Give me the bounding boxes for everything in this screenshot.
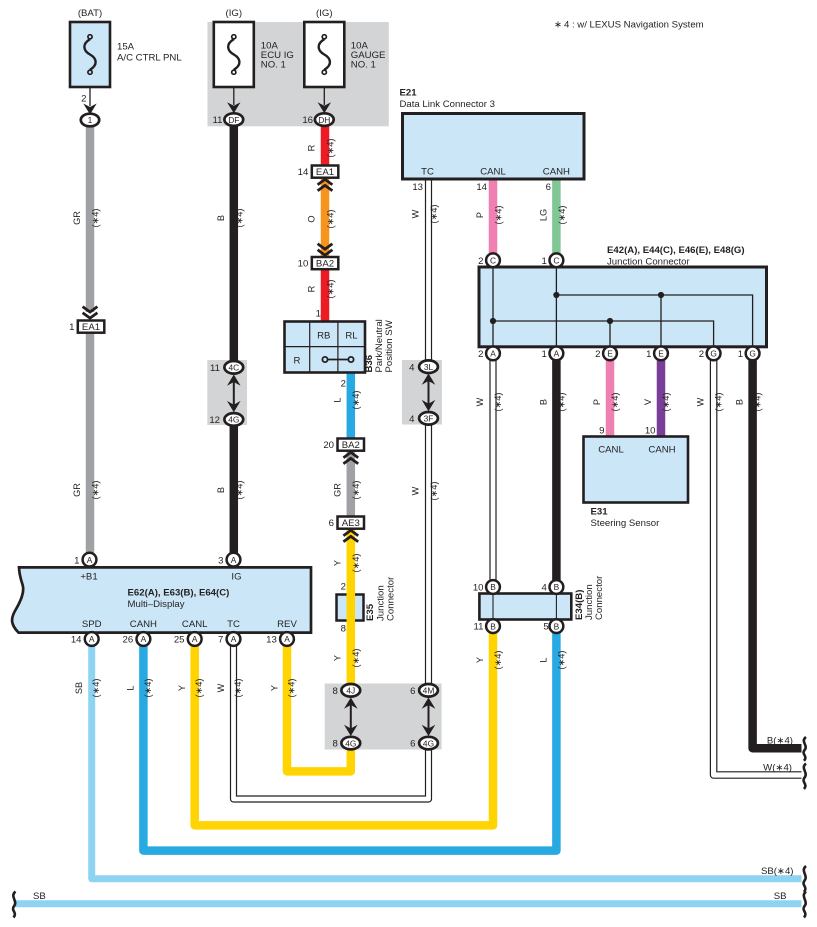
- connector oval 8 4J: [341, 684, 360, 697]
- svg-text:W: W: [216, 683, 226, 692]
- svg-text:G: G: [710, 349, 717, 359]
- wire L blue from B36 pin 2 to BA2: [347, 373, 356, 439]
- pin circle 3A IG: [227, 553, 241, 567]
- svg-text:14: 14: [298, 167, 309, 178]
- wire label O *4: [307, 210, 336, 229]
- B36 cell label RB: [317, 331, 330, 342]
- svg-text:4G: 4G: [228, 415, 239, 425]
- svg-text:B: B: [554, 582, 560, 592]
- svg-text:2: 2: [595, 349, 600, 360]
- wire label GR *4 lower: [72, 481, 101, 500]
- svg-text:Y: Y: [332, 560, 342, 566]
- connector oval 11 4C: [224, 361, 243, 374]
- pin circle 1A junction: [550, 347, 564, 361]
- wire W white from E21 TC pin 13 to 3L/4M: [425, 179, 432, 685]
- wire label W *4 E21 TC lower: [411, 482, 440, 501]
- gray background IG fuse block: [208, 22, 389, 126]
- svg-text:(∗4): (∗4): [429, 205, 439, 224]
- svg-text:1: 1: [74, 555, 79, 566]
- pin number 26 CANH: [123, 635, 134, 646]
- wire label W *4 2A: [475, 393, 503, 412]
- svg-text:2: 2: [81, 94, 86, 105]
- connector oval 6 4G lower-right: [419, 737, 438, 750]
- pin number 4 3L: [409, 362, 415, 373]
- wire SB light-blue SPD from pin 14A to right edge: [92, 645, 802, 879]
- pin number 10 B: [473, 583, 484, 594]
- connector oval 1 below BAT fuse: [81, 114, 99, 127]
- connector oval 12 4G: [224, 413, 243, 426]
- svg-text:A: A: [231, 555, 237, 565]
- svg-text:∗ 4 : w/ LEXUS Navigation Syst: ∗ 4 : w/ LEXUS Navigation System: [554, 20, 704, 31]
- svg-text:(IG): (IG): [316, 8, 333, 19]
- svg-text:(IG): (IG): [226, 8, 243, 19]
- exit label SB(*4): [761, 866, 794, 877]
- svg-text:4: 4: [409, 414, 415, 425]
- svg-text:P: P: [592, 399, 602, 405]
- wire label Y *4 below E35: [332, 649, 361, 668]
- svg-text:(∗4): (∗4): [351, 649, 361, 668]
- svg-text:15A: 15A: [117, 42, 135, 53]
- svg-text:Position SW: Position SW: [384, 319, 395, 372]
- label E21 title: [400, 88, 495, 111]
- svg-text:Y: Y: [269, 685, 279, 691]
- double arrow between 4M and 4G: [422, 698, 436, 737]
- pin circle 7A TC: [227, 632, 241, 646]
- svg-text:Y: Y: [475, 657, 485, 663]
- svg-text:REV: REV: [277, 619, 297, 630]
- wire label Y *4 CANL: [177, 679, 204, 698]
- svg-text:LG: LG: [538, 209, 548, 221]
- svg-text:4: 4: [542, 583, 548, 594]
- pin number 25 CANL: [174, 635, 185, 646]
- pin circle 25A CANL: [188, 632, 202, 646]
- svg-text:(∗4): (∗4): [234, 209, 244, 228]
- pin circle 5B: [550, 619, 564, 633]
- svg-text:(∗4): (∗4): [326, 139, 336, 158]
- svg-text:GR: GR: [332, 483, 342, 497]
- svg-text:1: 1: [738, 349, 743, 360]
- svg-text:E42(A), E44(C), E46(E), E48(G): E42(A), E44(C), E46(E), E48(G): [607, 245, 745, 256]
- wire label B *4 lower: [216, 481, 245, 500]
- wire label B *4 1G: [735, 393, 763, 412]
- svg-text:RL: RL: [345, 331, 358, 342]
- exit label SB left: [33, 891, 46, 902]
- pin number 2 C: [478, 256, 483, 267]
- svg-text:A: A: [192, 634, 198, 644]
- chevron mark on GR wire above EA1: [83, 307, 98, 319]
- wire label B *4 upper: [216, 209, 245, 228]
- wire P pink from 2E to E31 CANL: [606, 360, 615, 437]
- pin circle 2A: [486, 347, 500, 361]
- connector oval 6 4M: [419, 684, 438, 697]
- wire label R *4 lower: [307, 280, 336, 299]
- svg-text:10: 10: [298, 259, 309, 270]
- fuse 10A ECU IG NO.1: [214, 22, 254, 113]
- svg-text:E: E: [607, 349, 613, 359]
- pin number 1 EA1: [69, 322, 74, 333]
- svg-text:1: 1: [542, 349, 547, 360]
- svg-text:A: A: [490, 349, 496, 359]
- break squiggle B wire right: [804, 737, 806, 761]
- pin number 1 A: [542, 349, 547, 360]
- pin number 2 A: [478, 349, 483, 360]
- wire label V *4 1E: [643, 393, 671, 412]
- B36 Park/Neutral Position SW box: [285, 322, 366, 373]
- svg-text:A/C CTRL PNL: A/C CTRL PNL: [117, 53, 182, 64]
- svg-text:TC: TC: [421, 167, 434, 178]
- double arrow between 4J and 4G: [344, 698, 358, 737]
- wire label Y *4 REV: [269, 679, 296, 698]
- svg-text:A: A: [89, 634, 95, 644]
- svg-text:B(∗4): B(∗4): [767, 736, 793, 747]
- svg-text:Connector: Connector: [386, 576, 397, 621]
- svg-text:R: R: [307, 144, 317, 151]
- svg-text:(∗4): (∗4): [429, 482, 439, 501]
- svg-text:CANL: CANL: [480, 167, 506, 178]
- svg-text:1: 1: [69, 322, 74, 333]
- svg-text:14: 14: [476, 182, 487, 193]
- svg-text:+B1: +B1: [80, 572, 97, 583]
- svg-text:CANL: CANL: [598, 445, 624, 456]
- E34(B) junction connector box: [479, 594, 571, 620]
- svg-text:11: 11: [210, 363, 220, 374]
- svg-text:8: 8: [332, 686, 337, 697]
- svg-text:B: B: [216, 215, 226, 221]
- svg-text:Steering Sensor: Steering Sensor: [591, 518, 661, 529]
- svg-text:Junction Connector: Junction Connector: [607, 257, 690, 268]
- connector oval 4 3L: [419, 360, 438, 373]
- pin circle 4B: [550, 580, 564, 594]
- pin number 10 BA2: [298, 259, 309, 270]
- svg-text:IG: IG: [231, 572, 241, 583]
- pin circle 13A REV: [280, 632, 294, 646]
- svg-text:(∗4): (∗4): [556, 651, 566, 670]
- svg-text:NO. 1: NO. 1: [351, 60, 376, 71]
- E31 Steering Sensor box: [584, 437, 689, 503]
- label (BAT): [78, 8, 102, 19]
- svg-text:(∗4): (∗4): [753, 393, 763, 412]
- pin circle 1E: [654, 347, 668, 361]
- pin number 11 4C: [210, 363, 220, 374]
- E21 Data Link Connector 3 box: [403, 114, 585, 180]
- connector box 20 BA2 on L wire: [338, 439, 365, 452]
- svg-text:(∗4): (∗4): [493, 651, 503, 670]
- wire label GR *4 upper: [72, 209, 101, 228]
- E42/E44/E46/E48 junction connector box: [479, 267, 767, 347]
- pin circle 1G: [746, 347, 760, 361]
- pin number 12 4G: [209, 415, 220, 426]
- svg-text:EA1: EA1: [316, 167, 334, 178]
- svg-text:(BAT): (BAT): [78, 8, 102, 19]
- wire B black from 1A to E34 4B: [552, 360, 561, 581]
- wire label L *4 5B: [538, 651, 566, 670]
- wire label Y *4 11B: [475, 651, 503, 670]
- svg-text:SB(∗4): SB(∗4): [761, 866, 794, 877]
- pin number 8 E35: [341, 624, 346, 635]
- svg-text:12: 12: [209, 415, 220, 426]
- wire W white from 2G to right edge: [714, 360, 802, 775]
- exit label SB right: [774, 891, 787, 902]
- svg-text:(∗4): (∗4): [351, 554, 361, 573]
- wire label W *4 TC: [216, 679, 243, 698]
- svg-text:3: 3: [218, 555, 223, 566]
- svg-text:26: 26: [123, 635, 134, 646]
- svg-text:Connector: Connector: [594, 575, 605, 620]
- connector box 6 AE3 on GR wire: [338, 517, 365, 530]
- wire label B *4 1A: [538, 393, 566, 412]
- pin number 2 E: [595, 349, 600, 360]
- svg-text:CANH: CANH: [543, 167, 570, 178]
- wire R red from BA2 to B36 pin 1: [321, 268, 330, 322]
- svg-text:A: A: [284, 634, 290, 644]
- svg-text:1: 1: [646, 349, 651, 360]
- svg-text:(∗4): (∗4): [351, 481, 361, 500]
- svg-text:(∗4): (∗4): [714, 393, 724, 412]
- wire label W *4 E21 TC upper: [411, 205, 440, 224]
- svg-text:(∗4): (∗4): [143, 679, 153, 698]
- wire GR gray from BA2 to AE3: [347, 451, 356, 517]
- svg-text:14: 14: [71, 635, 82, 646]
- B36 switch symbol: [322, 357, 353, 362]
- pin number 1 C: [542, 256, 547, 267]
- pin number 4 3F: [409, 414, 415, 425]
- wire label L *4: [332, 391, 361, 410]
- svg-text:(∗4): (∗4): [494, 206, 504, 225]
- svg-text:11: 11: [213, 115, 223, 126]
- svg-text:R: R: [307, 285, 317, 292]
- B36 cell label R: [294, 356, 301, 367]
- connector oval 4 3F: [419, 412, 438, 425]
- svg-text:6: 6: [410, 739, 415, 750]
- svg-text:9: 9: [599, 426, 604, 437]
- svg-text:4J: 4J: [346, 686, 355, 696]
- chevron mark below 14 EA1 pointing up: [318, 179, 333, 191]
- svg-text:2: 2: [478, 256, 483, 267]
- svg-text:DH: DH: [318, 115, 330, 125]
- pin number 1 +B1: [74, 555, 79, 566]
- svg-text:(∗4): (∗4): [326, 280, 336, 299]
- svg-text:B: B: [538, 399, 548, 405]
- svg-text:B: B: [216, 487, 226, 493]
- svg-text:W(∗4): W(∗4): [763, 763, 792, 774]
- break squiggle W wire right: [804, 764, 806, 790]
- pin number 1 B36: [316, 309, 321, 320]
- pin circle 2G: [707, 347, 721, 361]
- svg-text:20: 20: [323, 440, 334, 451]
- svg-text:4G: 4G: [423, 738, 434, 748]
- svg-text:4C: 4C: [228, 363, 239, 373]
- pin number 8 4G: [332, 739, 337, 750]
- pin number 14 EA1: [298, 167, 309, 178]
- svg-text:W: W: [411, 209, 421, 218]
- svg-text:4G: 4G: [345, 738, 356, 748]
- exit label W(*4): [763, 763, 792, 774]
- pin number 9 E31: [599, 426, 604, 437]
- svg-text:A: A: [554, 349, 560, 359]
- wire L blue CANH from pin 26A to E34 5B: [143, 633, 556, 851]
- svg-text:5: 5: [543, 622, 548, 633]
- label (IG) right: [316, 8, 333, 19]
- pin number 16 DH: [302, 115, 313, 126]
- label (IG) left: [226, 8, 243, 19]
- svg-text:1: 1: [542, 256, 547, 267]
- svg-text:AE3: AE3: [342, 518, 360, 529]
- svg-text:(∗4): (∗4): [661, 393, 671, 412]
- svg-text:A: A: [141, 634, 147, 644]
- pin circle 1C: [550, 253, 564, 267]
- E42 junction connector title: [607, 245, 745, 268]
- svg-text:11: 11: [474, 622, 484, 633]
- svg-text:TC: TC: [227, 619, 240, 630]
- wire W white TC from pin 7A to 4G: [234, 645, 429, 799]
- wire label SB *4 SPD: [74, 679, 101, 698]
- svg-text:R: R: [294, 356, 301, 367]
- wire LG green from E21 CANH to 1C: [552, 179, 561, 254]
- svg-text:L: L: [332, 397, 342, 402]
- svg-text:13: 13: [412, 182, 423, 193]
- svg-text:B: B: [735, 399, 745, 405]
- chevron mark above 10 BA2 pointing down: [318, 244, 333, 256]
- svg-text:(∗4): (∗4): [557, 206, 567, 225]
- pin number 6 4M: [410, 686, 415, 697]
- pin number 4 B: [542, 583, 548, 594]
- Multi-Display box E62/E63/E64: [12, 567, 311, 632]
- svg-text:SB: SB: [774, 891, 787, 902]
- pin circle 10B: [486, 580, 500, 594]
- wire GR gray from fuse 1 to +B1: [86, 126, 95, 553]
- label 15A A/C CTRL PNL: [117, 42, 182, 64]
- pin number 11 DF: [213, 115, 223, 126]
- wire Y yellow CANL from pin 25A to E34 11B: [195, 633, 493, 826]
- svg-text:2: 2: [478, 349, 483, 360]
- svg-text:EA1: EA1: [82, 322, 100, 333]
- pin number 8 4J: [332, 686, 337, 697]
- svg-text:2: 2: [341, 379, 346, 390]
- svg-text:BA2: BA2: [342, 440, 360, 451]
- svg-text:W: W: [475, 397, 485, 406]
- E35 rotated name: [365, 576, 397, 621]
- E34 rotated name: [574, 575, 605, 620]
- pin circle 26A CANH: [137, 632, 151, 646]
- fuse 10A GAUGE NO.1: [304, 22, 344, 113]
- svg-text:16: 16: [302, 115, 313, 126]
- junction dot 2E net: [607, 318, 613, 324]
- pin number 20 BA2: [323, 440, 334, 451]
- connector oval 8 4G lower-left: [341, 737, 360, 750]
- svg-text:(∗4): (∗4): [194, 679, 204, 698]
- exit label B(*4): [767, 736, 793, 747]
- break squiggle SB4 wire right: [804, 866, 806, 892]
- svg-text:(∗4): (∗4): [91, 481, 101, 500]
- wire label Y *4 above E35: [332, 554, 361, 573]
- svg-text:O: O: [307, 215, 317, 222]
- break squiggle SB wire right: [804, 892, 806, 918]
- svg-text:Multi–Display: Multi–Display: [128, 599, 185, 610]
- svg-text:A: A: [231, 634, 237, 644]
- pin number 6 4G: [410, 739, 415, 750]
- pin circle 2E: [603, 347, 617, 361]
- svg-text:4: 4: [409, 362, 415, 373]
- svg-text:E35: E35: [365, 603, 376, 621]
- wire R red from DH to EA1: [321, 126, 330, 166]
- wire P pink from E21 CANL to 2C: [489, 179, 498, 254]
- svg-text:8: 8: [341, 624, 346, 635]
- svg-text:CANH: CANH: [648, 445, 675, 456]
- pin circle 2C: [486, 253, 500, 267]
- svg-text:GR: GR: [72, 211, 82, 225]
- svg-text:V: V: [643, 398, 653, 405]
- pin number 14 SPD: [71, 635, 82, 646]
- svg-text:1: 1: [88, 115, 93, 125]
- junction dot 2C-2A net: [490, 318, 496, 324]
- pin number 13 TC: [412, 182, 423, 193]
- pin number 14 CANL: [476, 182, 487, 193]
- pin number 5 B: [543, 622, 548, 633]
- gray background 4C/4G connector block: [207, 360, 247, 425]
- svg-text:SB: SB: [33, 891, 46, 902]
- svg-text:P: P: [475, 212, 485, 218]
- pin number 11 B: [474, 622, 484, 633]
- pin number 6 CANH: [546, 182, 551, 193]
- chevron mark below 20 BA2 pointing up: [343, 452, 358, 464]
- svg-text:3F: 3F: [424, 414, 434, 424]
- svg-text:C: C: [553, 256, 559, 266]
- svg-text:2: 2: [341, 582, 346, 593]
- svg-text:W: W: [696, 397, 706, 406]
- pin circle 1A +B1: [83, 553, 97, 567]
- chevron mark below 6 AE3 pointing up: [343, 530, 358, 542]
- svg-text:B: B: [554, 621, 560, 631]
- wire label W *4 2G: [696, 393, 724, 412]
- svg-text:13: 13: [266, 635, 277, 646]
- junction dot 1E net: [658, 292, 664, 298]
- pin number 3 IG: [218, 555, 223, 566]
- svg-text:Y: Y: [177, 685, 187, 691]
- svg-text:G: G: [749, 349, 756, 359]
- svg-text:DF: DF: [228, 115, 239, 125]
- svg-text:Data Link Connector 3: Data Link Connector 3: [400, 99, 495, 110]
- svg-text:10: 10: [645, 426, 656, 437]
- pin number 1 E: [646, 349, 651, 360]
- connector box 10 BA2 on red wire: [312, 257, 339, 270]
- pin number 1 G: [738, 349, 743, 360]
- wire W white from 2A to E34 10B: [489, 360, 496, 581]
- svg-text:B: B: [490, 621, 496, 631]
- svg-text:(∗4): (∗4): [91, 209, 101, 228]
- pin number 13 REV: [266, 635, 277, 646]
- break squiggle SB wire left: [13, 892, 15, 918]
- junction connector E35 box: [337, 595, 364, 621]
- pin number 2 B36 bottom: [341, 379, 346, 390]
- svg-text:C: C: [490, 256, 496, 266]
- pin number 6 AE3: [329, 518, 334, 529]
- svg-text:2: 2: [699, 349, 704, 360]
- svg-text:BA2: BA2: [316, 259, 334, 270]
- svg-text:(∗4): (∗4): [234, 481, 244, 500]
- junction dot 1C-1A net: [553, 292, 559, 298]
- wire label LG *4: [538, 206, 567, 225]
- gray background 3L/3F connector block: [402, 360, 442, 425]
- svg-text:CANH: CANH: [130, 619, 157, 630]
- connector oval DH: [315, 113, 334, 126]
- svg-text:CANL: CANL: [182, 619, 208, 630]
- wire Y yellow REV from pin 13A to 4G: [287, 645, 351, 771]
- connector box 1 EA1 on gray wire: [78, 321, 105, 334]
- gray background 4J/4M/4G connector block: [325, 684, 442, 750]
- double arrow between 3L and 3F: [422, 374, 436, 412]
- svg-text:L: L: [126, 685, 136, 690]
- svg-text:E31: E31: [591, 507, 609, 518]
